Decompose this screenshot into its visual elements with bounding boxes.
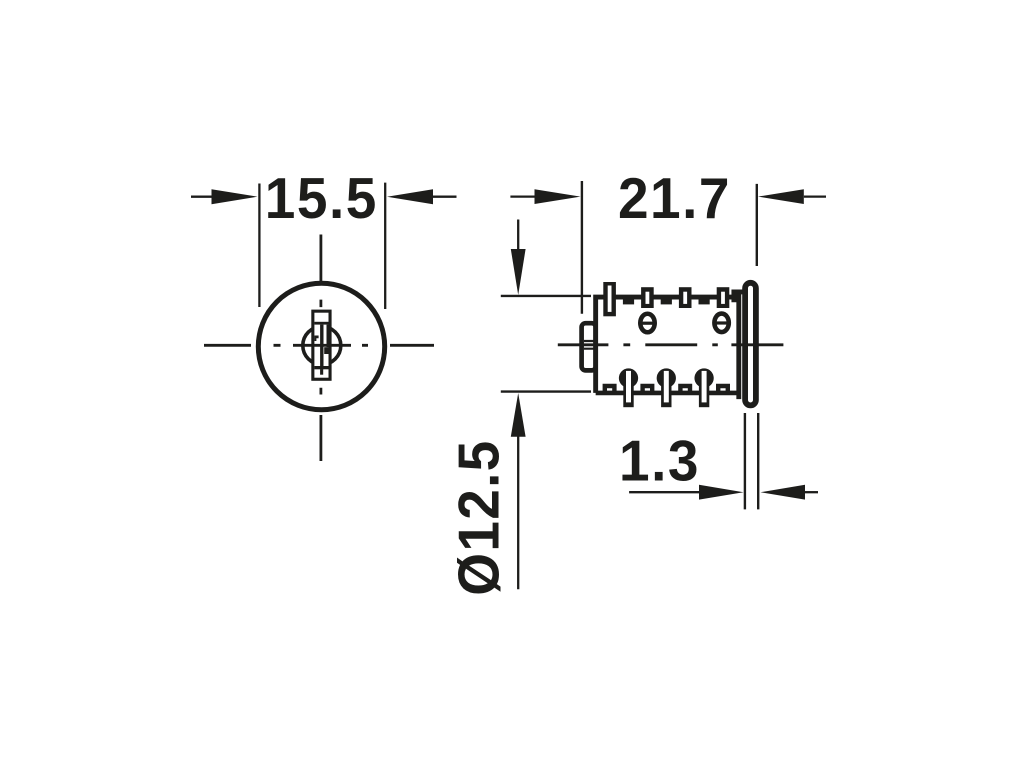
bottom pin 1 bbox=[619, 368, 638, 407]
side view: body left edge, top line, right end step and right edge bbox=[596, 292, 744, 399]
dimension 21.7 extension line right bbox=[756, 184, 758, 266]
bottom pin 3 bbox=[694, 368, 713, 407]
top chamber block 2 bbox=[661, 296, 672, 304]
dimension 1.3 right arrow bbox=[805, 491, 818, 493]
side view: body bottom line bbox=[596, 391, 739, 396]
top pin 3 bbox=[679, 287, 692, 308]
dimension 12.5 extension line top bbox=[501, 295, 591, 297]
dimension 12.5 upper arrow bbox=[517, 220, 519, 253]
keyhole outer rectangle bbox=[311, 310, 331, 381]
bottom notch 1 bbox=[605, 386, 615, 394]
dimension 21.7 left arrow bbox=[510, 195, 536, 197]
front view vertical centerline bbox=[319, 235, 322, 462]
dimension 1.3 left arrow bbox=[629, 491, 700, 493]
keyhole center ward line bbox=[320, 325, 323, 370]
side view horizontal centerline bbox=[558, 343, 784, 346]
dimension 15.5 left arrow bbox=[191, 196, 213, 198]
keyhole inner top bar bbox=[314, 322, 328, 325]
dimension 1.3 extension lines bbox=[745, 413, 758, 509]
face flange ring bbox=[745, 283, 756, 406]
keyhole right ward bar bbox=[327, 325, 329, 348]
dimension 15.5 extension line right bbox=[384, 183, 386, 309]
top pin 4 bbox=[717, 287, 730, 308]
keyhole right bitting notch bbox=[324, 347, 328, 354]
dimension 15.5 right arrow bbox=[433, 196, 457, 198]
top pin 2 bbox=[641, 287, 654, 308]
keyhole inner bottom bar bbox=[314, 366, 328, 369]
keyhole left bitting notch bbox=[314, 336, 318, 342]
front view horizontal centerline bbox=[204, 344, 434, 347]
side view: cam (left nose) bbox=[582, 323, 596, 370]
dimension 15.5 extension line left bbox=[258, 184, 260, 308]
bottom notch 3 bbox=[680, 386, 690, 394]
front view: cylinder face circle bbox=[258, 283, 384, 409]
bottom notch 4 bbox=[718, 386, 728, 394]
top chamber block 1 bbox=[623, 296, 634, 304]
screw hole 2 bbox=[714, 314, 728, 333]
front view: plug circle bbox=[303, 327, 341, 365]
svg-text:1.3: 1.3 bbox=[619, 428, 700, 492]
svg-text:15.5: 15.5 bbox=[265, 166, 378, 230]
keyhole bottom stub bbox=[320, 369, 323, 374]
cam slot lines bbox=[584, 341, 595, 349]
screw hole 1 bbox=[640, 314, 654, 333]
dimension 21.7 extension line left bbox=[581, 181, 583, 314]
top pin 1 bbox=[603, 282, 616, 316]
bottom pin 2 bbox=[657, 368, 676, 407]
bottom notch 2 bbox=[643, 386, 653, 394]
top chamber block 3 bbox=[699, 296, 710, 304]
dimension 12.5 lower arrow bbox=[517, 435, 519, 589]
dimension 21.7 right arrow bbox=[804, 195, 826, 197]
dimension 12.5 extension line bottom bbox=[501, 390, 591, 392]
svg-text:21.7: 21.7 bbox=[618, 166, 731, 230]
svg-text:Ø12.5: Ø12.5 bbox=[446, 439, 510, 595]
